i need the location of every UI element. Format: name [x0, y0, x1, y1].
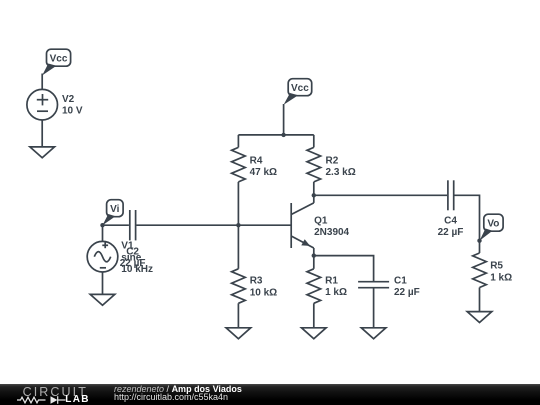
node Vi — [100, 223, 104, 227]
logo resistor-diode drawing — [17, 395, 69, 405]
svg-text:R2: R2 — [326, 156, 339, 167]
svg-text:C4: C4 — [444, 216, 457, 227]
svg-text:R1: R1 — [325, 275, 338, 286]
label Vcc (left) — [42, 49, 70, 75]
voltage source V1 (sine) — [87, 241, 118, 272]
svg-text:10 V: 10 V — [62, 106, 83, 117]
capacitor C4 — [448, 180, 454, 210]
svg-text:Vcc: Vcc — [291, 83, 309, 94]
svg-text:C2: C2 — [126, 246, 139, 257]
svg-text:22 µF: 22 µF — [438, 227, 464, 238]
svg-text:R3: R3 — [250, 276, 263, 287]
resistor R1 — [307, 256, 321, 328]
wire V1 to ground — [102, 272, 104, 294]
wire C4 to Vo — [455, 195, 480, 240]
svg-text:Vi: Vi — [110, 204, 119, 215]
label Vi — [103, 200, 124, 226]
resistor R5 — [473, 241, 487, 312]
capacitor C1 — [358, 282, 389, 328]
wire Vcc label to rail — [283, 104, 285, 135]
wire emitter to C1 — [314, 256, 374, 282]
capacitor C2 — [130, 210, 136, 240]
svg-text:R4: R4 — [250, 156, 263, 167]
wire base — [238, 224, 291, 226]
footer meta text — [114, 385, 242, 403]
svg-text:2.3 kΩ: 2.3 kΩ — [326, 167, 356, 178]
voltage source V2 — [27, 89, 58, 120]
resistor R4 — [232, 135, 246, 225]
wire Vcc rail — [238, 134, 313, 136]
node Vcc rail — [281, 133, 285, 137]
svg-text:10 kΩ: 10 kΩ — [250, 287, 277, 298]
node base — [236, 223, 240, 227]
ground (R1) — [302, 328, 327, 339]
wire Vi node down to V1 — [102, 225, 104, 241]
label Vcc (top) — [284, 79, 312, 105]
transistor Q1 — [291, 195, 314, 255]
svg-text:R5: R5 — [490, 261, 503, 272]
wire collector to C4 — [314, 194, 447, 196]
svg-text:Vo: Vo — [487, 218, 499, 229]
svg-text:2N3904: 2N3904 — [314, 227, 349, 238]
svg-text:Q1: Q1 — [314, 215, 328, 226]
svg-text:Vcc: Vcc — [50, 53, 68, 64]
node collector — [312, 193, 316, 197]
svg-text:22 µF: 22 µF — [394, 287, 420, 298]
svg-text:V2: V2 — [62, 94, 75, 105]
logo LAB — [65, 396, 89, 404]
wire V2 bottom lead — [41, 120, 43, 147]
svg-text:22 µF: 22 µF — [120, 258, 146, 269]
resistor R3 — [232, 225, 246, 328]
wire V2 top lead — [41, 74, 43, 90]
ground (R3) — [226, 328, 251, 339]
ground (C1) — [361, 328, 386, 339]
wire C2 to base node — [136, 224, 238, 226]
svg-text:1 kΩ: 1 kΩ — [490, 272, 512, 283]
ground (V2) — [30, 147, 55, 158]
node emitter — [312, 253, 316, 257]
label Vo — [480, 214, 504, 241]
logo CIRCUIT — [23, 387, 88, 397]
svg-text:47 kΩ: 47 kΩ — [250, 167, 277, 178]
ground (V1) — [90, 294, 115, 305]
svg-text:1 kΩ: 1 kΩ — [325, 287, 347, 298]
resistor R2 — [307, 135, 321, 195]
wire Vi node to C2 — [103, 224, 129, 226]
ground (R5) — [467, 312, 492, 323]
node Vo — [477, 239, 481, 243]
svg-text:C1: C1 — [394, 275, 407, 286]
footer bar — [0, 384, 540, 405]
